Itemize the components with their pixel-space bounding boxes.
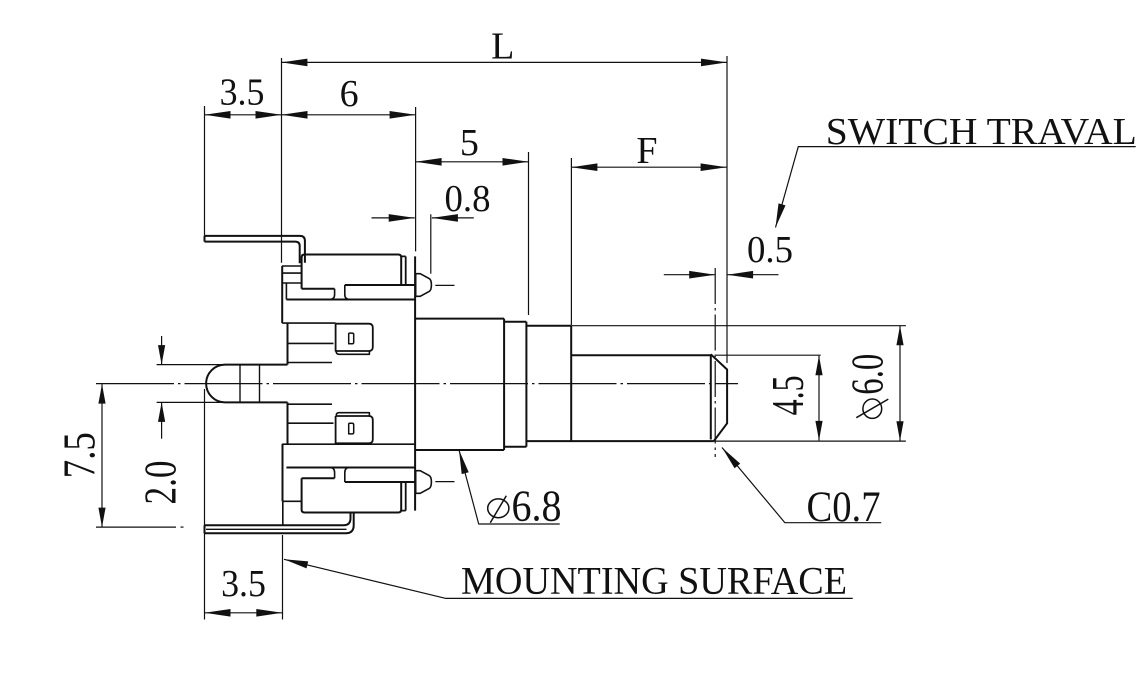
svg-text:F: F [636,130,657,172]
svg-text:3.5: 3.5 [221,563,266,605]
svg-text:SWITCH TRAVAL: SWITCH TRAVAL [826,111,1137,153]
svg-text:5: 5 [460,122,479,164]
svg-text:MOUNTING SURFACE: MOUNTING SURFACE [461,560,847,603]
svg-text:C0.7: C0.7 [807,484,881,531]
svg-text:6: 6 [340,73,359,115]
svg-text:2.0: 2.0 [135,461,186,505]
svg-text:7.5: 7.5 [54,432,105,478]
svg-text:0.5: 0.5 [747,229,793,271]
svg-text:4.5: 4.5 [763,375,813,415]
svg-text:6.8: 6.8 [512,482,562,531]
svg-text:L: L [491,25,514,67]
svg-text:6.0: 6.0 [842,354,892,395]
svg-text:0.8: 0.8 [445,178,491,220]
svg-text:3.5: 3.5 [220,72,265,114]
